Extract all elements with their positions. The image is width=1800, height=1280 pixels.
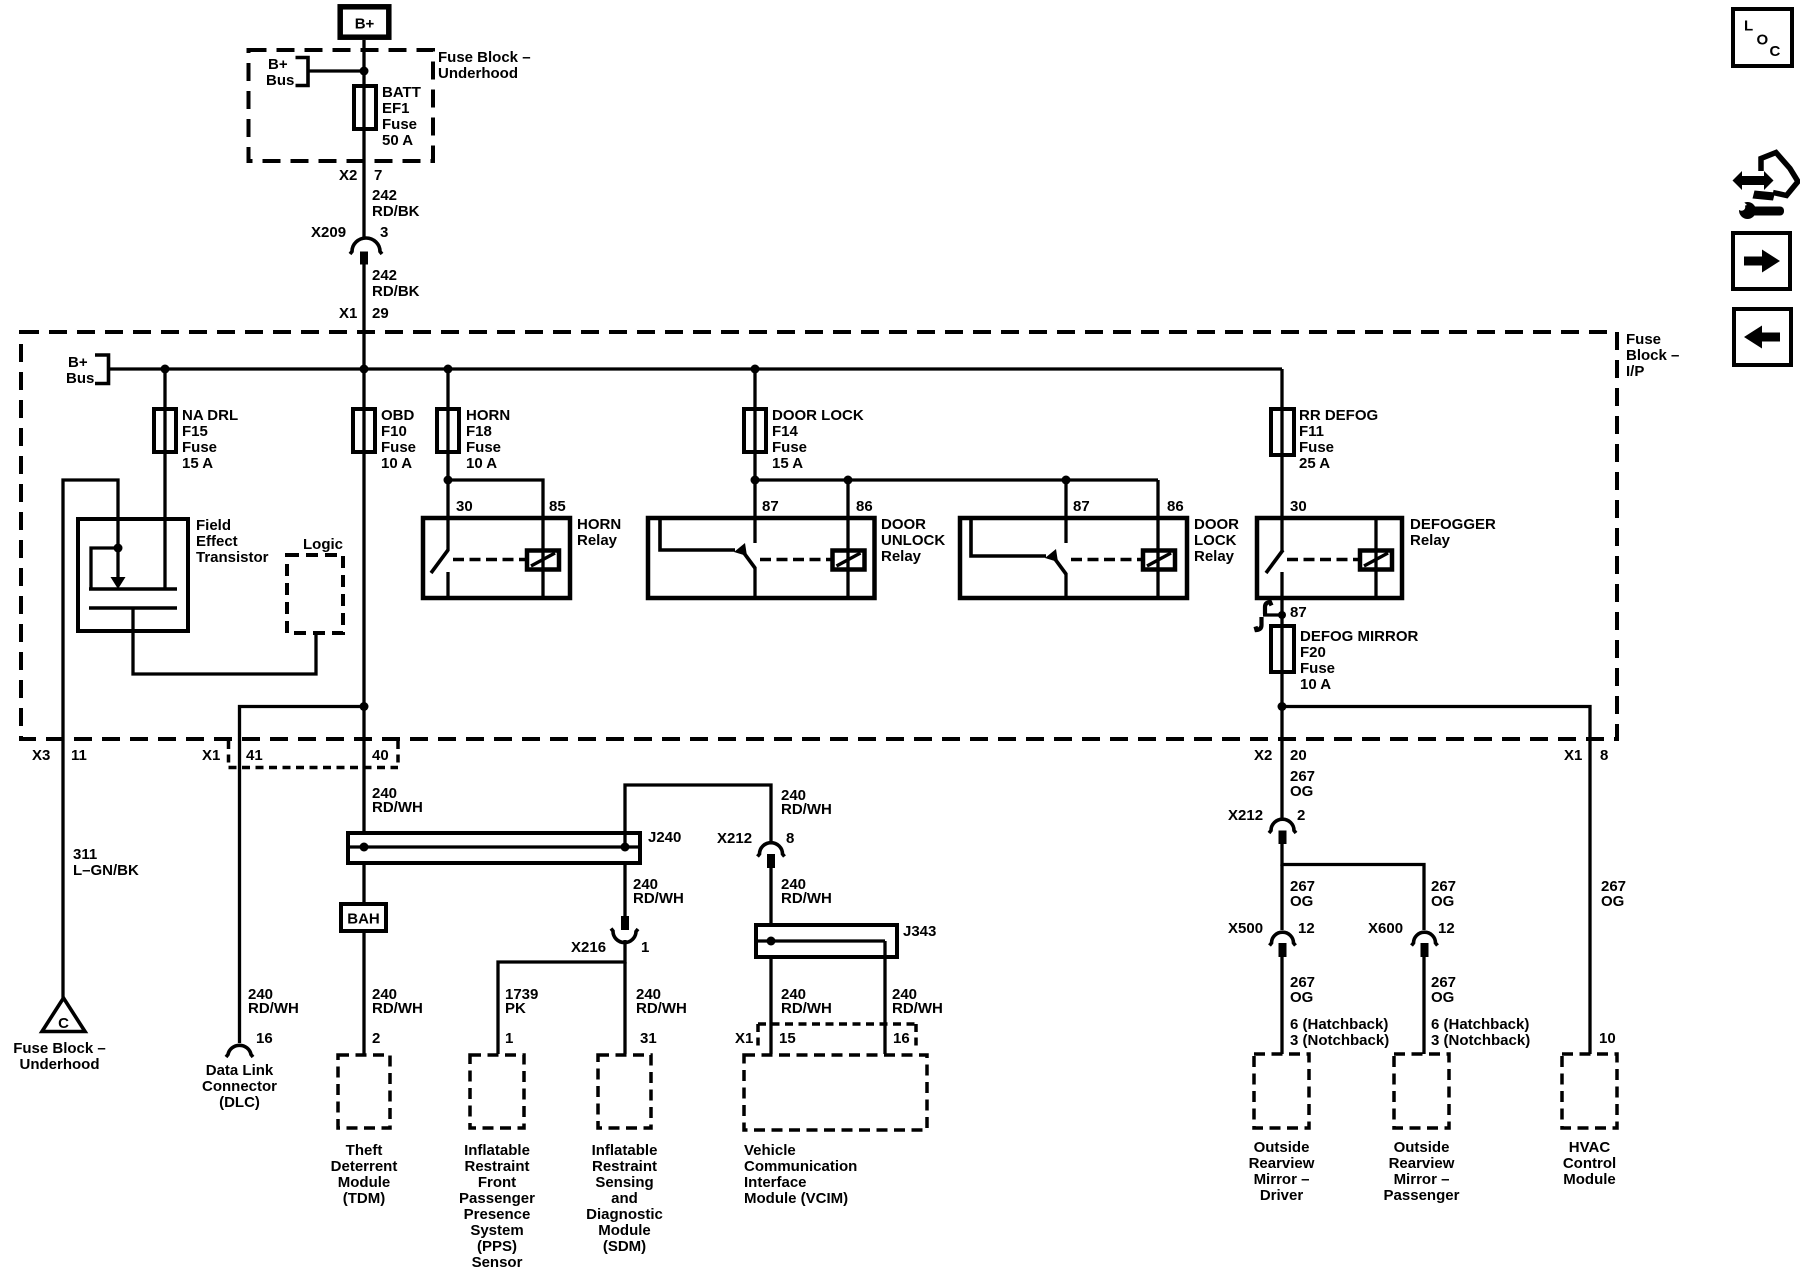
svg-text:B+: B+: [68, 354, 88, 371]
svg-text:X2: X2: [339, 167, 357, 184]
svg-text:30: 30: [1290, 498, 1307, 515]
svg-text:15 A: 15 A: [772, 455, 803, 472]
door lock relay switch arm with arrowhead: [1052, 555, 1066, 574]
svg-text:B+: B+: [355, 16, 375, 33]
svg-text:C: C: [1770, 43, 1781, 60]
module Theft Deterrent dashed box: [338, 1055, 390, 1128]
svg-text:LOCK: LOCK: [1194, 532, 1237, 549]
svg-text:PK: PK: [505, 1000, 526, 1017]
FET arrow down: [116, 548, 119, 577]
svg-text:Relay: Relay: [1410, 532, 1451, 549]
svg-text:Outside: Outside: [1254, 1139, 1310, 1156]
icon arrow-right box: [1733, 233, 1790, 289]
svg-text:Module (VCIM): Module (VCIM): [744, 1190, 848, 1207]
junction bus at F14: [751, 365, 760, 374]
door lock relay coil: [1143, 551, 1175, 570]
svg-text:DOOR: DOOR: [1194, 516, 1239, 533]
module VCIM dashed box: [744, 1055, 927, 1130]
svg-text:X1: X1: [339, 305, 357, 322]
svg-text:NA DRL: NA DRL: [182, 407, 238, 424]
wire J240 to TDM: [362, 863, 365, 1054]
svg-text:Logic: Logic: [303, 536, 343, 553]
svg-text:Rearview: Rearview: [1249, 1155, 1315, 1172]
svg-text:Fuse: Fuse: [772, 439, 807, 456]
FET drain bar: [89, 587, 177, 591]
svg-text:Relay: Relay: [881, 548, 922, 565]
wire J343 to VCIM pin 16: [883, 941, 886, 1054]
connector DLC arc: [226, 1045, 253, 1057]
svg-text:10 A: 10 A: [466, 455, 497, 472]
wire B+ bus horizontal: [109, 367, 1283, 370]
junction at B+ bus tap: [360, 67, 369, 76]
svg-text:RD/WH: RD/WH: [892, 1000, 943, 1017]
splice J240 bar: [348, 833, 640, 863]
wire J240 down to X216: [623, 863, 626, 917]
svg-text:Mirror –: Mirror –: [1254, 1171, 1310, 1188]
svg-text:(TDM): (TDM): [343, 1190, 385, 1207]
relay HORN box: [423, 518, 570, 598]
svg-text:(PPS): (PPS): [477, 1238, 517, 1255]
svg-text:O: O: [1757, 32, 1769, 49]
svg-text:Sensor: Sensor: [472, 1254, 523, 1271]
svg-text:87: 87: [1290, 604, 1307, 621]
fuse RR DEFOG F11 25A: [1271, 409, 1294, 455]
module HVAC dashed box: [1562, 1054, 1617, 1128]
svg-text:Control: Control: [1563, 1155, 1616, 1172]
svg-text:3 (Notchback): 3 (Notchback): [1290, 1032, 1389, 1049]
svg-text:85: 85: [549, 498, 566, 515]
svg-text:X500: X500: [1228, 920, 1263, 937]
svg-text:Front: Front: [478, 1174, 516, 1191]
svg-text:RD/WH: RD/WH: [781, 801, 832, 818]
defogger relay coil: [1360, 551, 1392, 570]
svg-text:X1: X1: [1564, 747, 1582, 764]
door unlock relay coil: [833, 551, 865, 570]
svg-text:Passenger: Passenger: [1384, 1187, 1460, 1204]
svg-text:15 A: 15 A: [182, 455, 213, 472]
svg-text:RD/WH: RD/WH: [636, 1000, 687, 1017]
junction horn feeder: [444, 476, 453, 485]
relay DOOR UNLOCK box: [648, 518, 875, 598]
svg-text:16: 16: [256, 1030, 273, 1047]
horn relay pin 30 lower stub: [446, 572, 449, 598]
door unlock relay coil dashed link: [760, 558, 832, 562]
node B+ Bus bracket (I/P): [95, 355, 109, 384]
relay DOOR LOCK box: [960, 518, 1187, 598]
svg-text:X1: X1: [202, 747, 220, 764]
svg-text:Field: Field: [196, 517, 231, 534]
svg-text:Module: Module: [598, 1222, 651, 1239]
door unlock relay internal L wire: [660, 518, 735, 550]
svg-text:HORN: HORN: [466, 407, 510, 424]
door unlock relay pin 87 lower stub: [753, 567, 756, 598]
wire X600 to passenger mirror: [1422, 956, 1425, 1054]
wire FET gate loop to ground run: [63, 480, 118, 998]
relay DEFOGGER box: [1257, 518, 1402, 598]
svg-text:EF1: EF1: [382, 100, 410, 117]
wire X212 down and branch to mirrors: [1282, 843, 1424, 930]
junction door feeder at 1066: [1062, 476, 1071, 485]
svg-text:Driver: Driver: [1260, 1187, 1304, 1204]
wire F20 junction to HVAC drop: [1282, 707, 1590, 1055]
svg-text:12: 12: [1438, 920, 1455, 937]
svg-text:(DLC): (DLC): [219, 1094, 260, 1111]
svg-text:X2: X2: [1254, 747, 1272, 764]
svg-text:F14: F14: [772, 423, 799, 440]
svg-text:242: 242: [372, 187, 397, 204]
svg-text:F15: F15: [182, 423, 208, 440]
svg-text:F18: F18: [466, 423, 492, 440]
svg-text:29: 29: [372, 305, 389, 322]
wire X500 to driver mirror: [1280, 956, 1283, 1054]
svg-text:UNLOCK: UNLOCK: [881, 532, 945, 549]
svg-text:Theft: Theft: [346, 1142, 383, 1159]
svg-text:F11: F11: [1299, 423, 1324, 440]
svg-text:BATT: BATT: [382, 84, 421, 101]
svg-text:F20: F20: [1300, 644, 1326, 661]
svg-text:RD/WH: RD/WH: [248, 1000, 299, 1017]
svg-text:Diagnostic: Diagnostic: [586, 1206, 663, 1223]
svg-text:Data Link: Data Link: [206, 1062, 274, 1079]
svg-text:25 A: 25 A: [1299, 455, 1330, 472]
horn relay coil: [527, 551, 559, 570]
svg-text:L: L: [1744, 18, 1753, 35]
svg-text:RD/BK: RD/BK: [372, 203, 420, 220]
wire X209 to fuse block IP (continues to J240): [362, 264, 365, 833]
svg-text:DEFOG MIRROR: DEFOG MIRROR: [1300, 628, 1418, 645]
defogger relay coil return wire: [1374, 518, 1377, 598]
junction bus at F10: [360, 365, 369, 374]
svg-text:87: 87: [762, 498, 779, 515]
svg-text:F10: F10: [381, 423, 407, 440]
svg-text:Passenger: Passenger: [459, 1190, 535, 1207]
svg-text:RD/WH: RD/WH: [633, 890, 684, 907]
svg-text:Underhood: Underhood: [20, 1056, 100, 1073]
svg-text:RD/WH: RD/WH: [372, 799, 423, 816]
defogger relay pin 87 stub continuing to X212 (2): [1280, 572, 1283, 818]
svg-text:86: 86: [1167, 498, 1184, 515]
junction bus at F15: [161, 365, 170, 374]
svg-text:50 A: 50 A: [382, 132, 413, 149]
svg-text:10 A: 10 A: [1300, 676, 1331, 693]
svg-text:Relay: Relay: [577, 532, 618, 549]
svg-text:20: 20: [1290, 747, 1307, 764]
connector strip X1 41 40: [227, 741, 231, 766]
ground triangle C: [42, 998, 85, 1032]
svg-text:X209: X209: [311, 224, 346, 241]
svg-text:Inflatable: Inflatable: [592, 1142, 658, 1159]
module mirror passenger dashed box: [1394, 1054, 1449, 1128]
svg-text:1: 1: [505, 1030, 513, 1047]
svg-text:16: 16: [893, 1030, 910, 1047]
svg-text:X212: X212: [717, 830, 752, 847]
svg-text:Bus: Bus: [266, 72, 294, 89]
svg-text:Bus: Bus: [66, 370, 94, 387]
svg-text:86: 86: [856, 498, 873, 515]
svg-text:RR DEFOG: RR DEFOG: [1299, 407, 1378, 424]
defogger relay coil dashed link: [1287, 558, 1360, 562]
svg-text:DOOR LOCK: DOOR LOCK: [772, 407, 864, 424]
svg-text:Fuse: Fuse: [1300, 660, 1335, 677]
fuse block underhood dashed box: [249, 50, 434, 161]
svg-text:Sensing: Sensing: [595, 1174, 653, 1191]
svg-text:6 (Hatchback): 6 (Hatchback): [1290, 1016, 1388, 1033]
icon LOC box: [1733, 9, 1792, 66]
wire DLC tap run: [240, 707, 365, 1044]
svg-text:OG: OG: [1290, 783, 1313, 800]
door lock relay internal L wire: [971, 518, 1046, 556]
svg-text:10: 10: [1599, 1030, 1616, 1047]
svg-text:OBD: OBD: [381, 407, 415, 424]
svg-text:J240: J240: [648, 829, 681, 846]
horn relay switch arm: [431, 550, 448, 573]
svg-text:System: System: [470, 1222, 523, 1239]
svg-text:41: 41: [246, 747, 263, 764]
door unlock relay switch arm with arrowhead: [741, 549, 755, 568]
transistor field effect box: [78, 519, 188, 631]
junction FET gate node: [114, 544, 123, 553]
svg-text:Module: Module: [338, 1174, 391, 1191]
wire J240 riser to X212 (8): [625, 785, 771, 847]
svg-text:OG: OG: [1431, 989, 1454, 1006]
svg-text:Restraint: Restraint: [464, 1158, 529, 1175]
wire bus drop to NA DRL fuse and FET drain: [163, 369, 166, 589]
svg-text:Fuse: Fuse: [1299, 439, 1334, 456]
svg-text:Fuse: Fuse: [466, 439, 501, 456]
battery terminal B+ box: [340, 7, 389, 37]
svg-text:OG: OG: [1290, 989, 1313, 1006]
svg-text:Fuse: Fuse: [382, 116, 417, 133]
svg-text:X216: X216: [571, 939, 606, 956]
wire lock relay pin 86 drop: [1156, 480, 1159, 598]
wire FET source to logic box: [133, 608, 316, 674]
svg-text:40: 40: [372, 747, 389, 764]
svg-text:Relay: Relay: [1194, 548, 1235, 565]
inline connector hooks at defogger 87: [1263, 613, 1282, 616]
icon arrow-left box: [1734, 309, 1791, 365]
svg-text:RD/WH: RD/WH: [781, 1000, 832, 1017]
door lock relay pin 87 lower stub: [1064, 573, 1067, 598]
module mirror driver dashed box: [1254, 1054, 1309, 1128]
svg-text:Fuse: Fuse: [381, 439, 416, 456]
svg-text:6 (Hatchback): 6 (Hatchback): [1431, 1016, 1529, 1033]
svg-text:Connector: Connector: [202, 1078, 277, 1095]
fuse DEFOG MIRROR F20 10A: [1271, 626, 1294, 672]
svg-text:Effect: Effect: [196, 533, 238, 550]
svg-text:(SDM): (SDM): [603, 1238, 646, 1255]
fuse block I/P dashed box: [21, 332, 1617, 739]
svg-text:RD/WH: RD/WH: [781, 890, 832, 907]
svg-text:11: 11: [71, 747, 87, 764]
wire door feeder 87/86 to lock relay: [755, 478, 1158, 481]
svg-text:Restraint: Restraint: [592, 1158, 657, 1175]
horn relay coil dashed link: [453, 558, 527, 562]
svg-text:242: 242: [372, 267, 397, 284]
svg-text:87: 87: [1073, 498, 1090, 515]
svg-text:X600: X600: [1368, 920, 1403, 937]
svg-text:I/P: I/P: [1626, 363, 1644, 380]
node BAH box: [341, 904, 386, 931]
svg-text:8: 8: [786, 830, 794, 847]
svg-text:Mirror –: Mirror –: [1394, 1171, 1450, 1188]
junction bus at F18: [444, 365, 453, 374]
svg-text:Outside: Outside: [1394, 1139, 1450, 1156]
fuse NA DRL F15 15A: [154, 409, 176, 452]
svg-text:and: and: [611, 1190, 638, 1207]
wire B+ feed main vertical (B+ box to X209): [362, 40, 365, 237]
svg-text:DOOR: DOOR: [881, 516, 926, 533]
svg-text:15: 15: [779, 1030, 796, 1047]
wire X212 to J343: [769, 867, 772, 925]
svg-text:OG: OG: [1290, 893, 1313, 910]
connector face X1 15 16 on VCIM: [758, 1022, 916, 1026]
wire bus drop to HORN fuse and relay pin 30: [446, 369, 449, 551]
svg-text:7: 7: [374, 167, 382, 184]
icon swap-part arrows and wrench: [1733, 171, 1774, 190]
module SDM dashed box: [598, 1055, 651, 1128]
svg-text:3 (Notchback): 3 (Notchback): [1431, 1032, 1530, 1049]
wire X216 split to PPS and SDM: [498, 940, 625, 1054]
wire B+ bus to main vertical: [308, 69, 364, 72]
wire unlock relay pin 86 drop: [846, 480, 849, 598]
door lock relay coil dashed link: [1071, 558, 1143, 562]
svg-text:12: 12: [1298, 920, 1315, 937]
svg-text:Fuse: Fuse: [182, 439, 217, 456]
svg-text:C: C: [58, 1015, 69, 1032]
wire FET gate left leg: [91, 548, 118, 589]
svg-text:Underhood: Underhood: [438, 65, 518, 82]
FET source bar: [89, 606, 177, 610]
svg-text:Interface: Interface: [744, 1174, 807, 1191]
svg-text:Fuse Block –: Fuse Block –: [13, 1040, 106, 1057]
svg-text:L–GN/BK: L–GN/BK: [73, 862, 139, 879]
svg-text:Vehicle: Vehicle: [744, 1142, 796, 1159]
svg-text:Communication: Communication: [744, 1158, 857, 1175]
svg-text:X1: X1: [735, 1030, 753, 1047]
fuse OBD F10 10A: [353, 409, 375, 452]
svg-text:OG: OG: [1431, 893, 1454, 910]
junction DLC tap: [360, 702, 369, 711]
svg-text:Transistor: Transistor: [196, 549, 269, 566]
wire lock relay pin 87 drop: [1064, 480, 1067, 543]
svg-text:Deterrent: Deterrent: [331, 1158, 398, 1175]
splice J343 bar: [756, 925, 897, 957]
module PPS sensor dashed box: [470, 1055, 524, 1128]
fuse BATT EF1 50A: [354, 86, 376, 129]
svg-text:B+: B+: [268, 56, 288, 73]
svg-text:Block –: Block –: [1626, 347, 1679, 364]
svg-text:HORN: HORN: [577, 516, 621, 533]
svg-text:Rearview: Rearview: [1389, 1155, 1455, 1172]
svg-text:Fuse: Fuse: [1626, 331, 1661, 348]
connector X216 pin 1: [621, 916, 629, 930]
svg-text:J343: J343: [903, 923, 936, 940]
svg-text:X3: X3: [32, 747, 50, 764]
wire horn feeder to pin 85: [448, 480, 543, 598]
defogger relay switch arm: [1266, 550, 1283, 573]
svg-text:Inflatable: Inflatable: [464, 1142, 530, 1159]
svg-text:X212: X212: [1228, 807, 1263, 824]
svg-text:311: 311: [73, 846, 97, 863]
svg-text:DEFOGGER: DEFOGGER: [1410, 516, 1496, 533]
svg-text:1: 1: [641, 939, 649, 956]
junction door feeder at 848: [844, 476, 853, 485]
wire J343 to VCIM pin 15: [769, 957, 772, 1054]
svg-text:2: 2: [372, 1030, 380, 1047]
fuse HORN F18 10A: [437, 409, 459, 452]
svg-text:Presence: Presence: [464, 1206, 531, 1223]
logic dashed box: [287, 555, 343, 633]
svg-text:2: 2: [1297, 807, 1305, 824]
svg-text:RD/WH: RD/WH: [372, 1000, 423, 1017]
svg-text:Module: Module: [1563, 1171, 1616, 1188]
svg-text:10 A: 10 A: [381, 455, 412, 472]
svg-text:Fuse Block –: Fuse Block –: [438, 49, 531, 66]
svg-text:30: 30: [456, 498, 473, 515]
svg-text:OG: OG: [1601, 893, 1624, 910]
fuse DOOR LOCK F14 15A: [744, 409, 766, 452]
svg-text:BAH: BAH: [347, 911, 380, 928]
svg-text:RD/BK: RD/BK: [372, 283, 420, 300]
junction below F20: [1278, 702, 1287, 711]
wire bus drop to DOOR LOCK fuse and unlock relay pin 87: [753, 369, 756, 543]
node B+ Bus bracket (underhood): [296, 58, 309, 86]
wire bus drop to RR DEFOG fuse and defogger pin 30: [1280, 369, 1283, 551]
svg-text:3: 3: [380, 224, 388, 241]
svg-text:31: 31: [640, 1030, 657, 1047]
svg-text:HVAC: HVAC: [1569, 1139, 1611, 1156]
svg-text:8: 8: [1600, 747, 1608, 764]
junction door feeder at 755: [751, 476, 760, 485]
